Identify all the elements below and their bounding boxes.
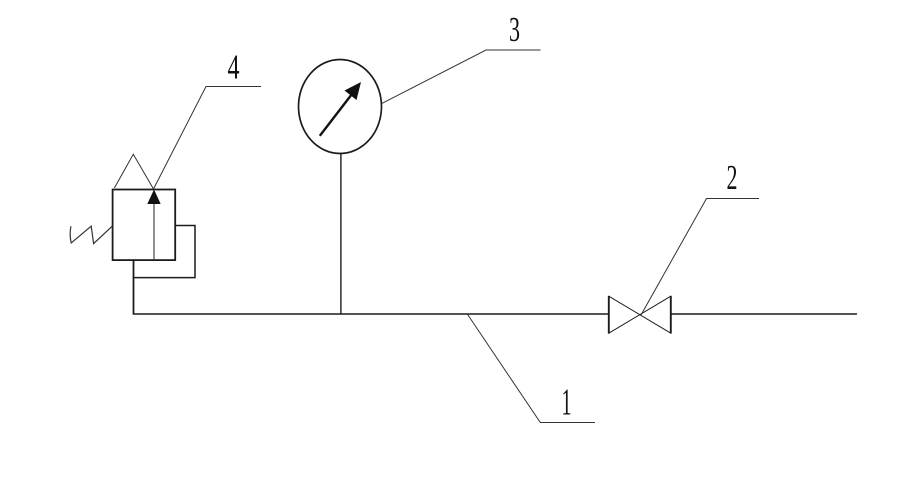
relief valve 4 body box [113,190,176,261]
svg-text:3: 3 [509,10,520,49]
svg-text:1: 1 [562,382,572,424]
svg-text:2: 2 [727,158,738,197]
leader line for label 2 [641,199,759,316]
wire relief valve drain to main line [133,260,135,315]
relief valve 4 internal arrow shaft [153,202,155,260]
wire gauge stem [340,154,342,315]
leader line for label 1 [467,314,595,423]
wire pilot loop from relief valve right side [134,226,196,278]
wire main pipe line left segment (net 1) [134,313,610,315]
wire main pipe line right segment (net 1) [671,313,857,315]
leader line for label 4 [154,87,262,190]
svg-text:4: 4 [228,48,240,87]
gauge 3 (pressure gauge body) [299,60,382,154]
gauge 3 needle [320,94,352,136]
relief valve 4 roof triangle [114,154,153,189]
relief valve 4 spring [70,226,112,244]
valve 2 (shut-off valve bowtie) [609,296,671,334]
gauge 3 needle arrowhead [345,82,362,100]
relief valve 4 internal arrowhead [147,190,160,205]
leader line for label 3 [382,50,541,103]
